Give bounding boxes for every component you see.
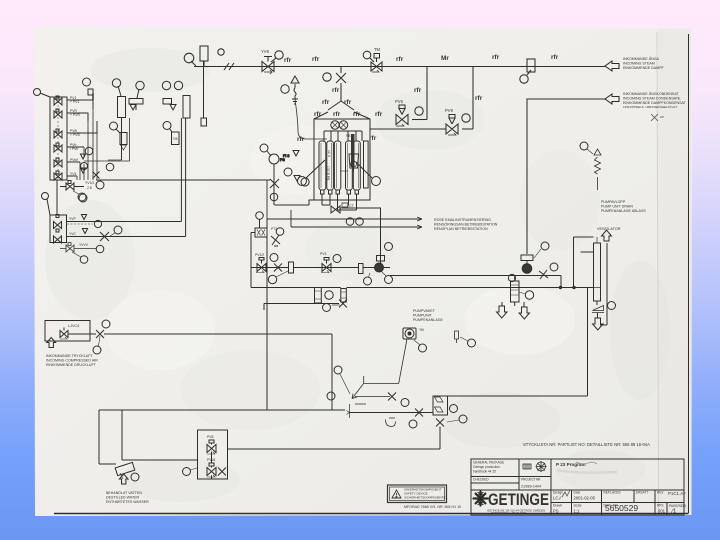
text ventilator arrow <box>602 230 612 241</box>
node j473 <box>472 67 474 130</box>
arrow drain A <box>497 306 507 318</box>
transducer B2 <box>163 122 171 130</box>
svg-text:GENERAL PACKAGE: GENERAL PACKAGE <box>473 461 504 465</box>
svg-text:rfr: rfr <box>414 87 422 94</box>
svg-text:SICHERHEITSKOMPONENTE: SICHERHEITSKOMPONENTE <box>404 496 446 500</box>
wire main to column <box>594 287 601 289</box>
title block frame <box>471 459 684 515</box>
wire condensate y99 <box>527 99 605 254</box>
svg-text:2001-02-05: 2001-02-05 <box>574 496 596 501</box>
wire down from CW <box>390 276 561 288</box>
svg-text:rfr: rfr <box>475 95 483 102</box>
valve TM <box>371 54 382 72</box>
text pump drain <box>597 200 646 231</box>
wire instr line 1 <box>267 180 422 221</box>
wire long bottom manifold <box>56 180 58 215</box>
label YV6/PV6/PV9 <box>261 47 454 113</box>
column V1 <box>594 243 601 301</box>
svg-text:PV8: PV8 <box>207 435 214 439</box>
dip tube <box>351 134 355 167</box>
cylinder 5 <box>353 141 360 190</box>
svg-text:PCT: PCT <box>347 204 354 208</box>
paper scan shading right <box>658 29 691 514</box>
water station <box>115 462 135 475</box>
svg-text:PUMPAVLOPP: PUMPAVLOPP <box>601 200 626 204</box>
wire loop bottom <box>448 395 588 397</box>
arrow water in <box>119 474 128 484</box>
svg-text:DESTILLED WATER: DESTILLED WATER <box>106 496 140 500</box>
valve X under P2 <box>339 300 347 308</box>
svg-text:MFGRAD 7668 V/S. NR. 565 H1 10: MFGRAD 7668 V/S. NR. 565 H1 10 <box>404 505 461 509</box>
title block icons <box>523 461 547 472</box>
text incoming steam <box>623 56 665 70</box>
valve PV5 <box>54 158 62 167</box>
air station box <box>45 321 90 342</box>
vent pipe <box>600 243 607 325</box>
wire bottom collect <box>322 198 357 210</box>
bottom nozzles <box>321 190 359 194</box>
heat exchanger HX <box>511 281 520 302</box>
node NB <box>218 49 224 55</box>
node T-junction <box>364 277 372 285</box>
valve X P5 <box>218 468 226 476</box>
valve YV1/2 lower <box>60 181 84 191</box>
instrument PI1 <box>184 53 194 63</box>
svg-text:PROJECTNR: PROJECTNR <box>521 478 541 482</box>
wire steps <box>67 100 97 176</box>
wire vertical x267 <box>266 219 268 410</box>
wire column drop <box>588 288 598 397</box>
svg-text:Scale: Scale <box>574 504 582 508</box>
valve YV6 <box>262 57 274 72</box>
svg-text:2.8: 2.8 <box>87 186 92 190</box>
chamber outline <box>314 119 370 200</box>
svg-text:Mr: Mr <box>441 55 449 62</box>
svg-text:LC ⁄⁄: LC ⁄⁄ <box>553 496 562 501</box>
svg-text:LJVC4: LJVC4 <box>68 324 79 328</box>
label cylinder text <box>326 134 351 181</box>
svg-text:PUMP UNIT DRAIN: PUMP UNIT DRAIN <box>601 205 633 209</box>
svg-text:rfr: rfr <box>551 54 559 61</box>
node j427 <box>426 67 428 120</box>
text water inlet <box>106 491 149 504</box>
rotameter R1 <box>289 262 294 273</box>
line break symbol <box>224 63 234 70</box>
valve diag D2 <box>539 270 548 279</box>
svg-text:PUMPENANLAGE ABLASS: PUMPENANLAGE ABLASS <box>601 209 646 213</box>
svg-text:YV4: YV4 <box>70 172 77 176</box>
svg-text:PV3: PV3 <box>320 252 327 256</box>
cylinder CY1 <box>118 97 126 118</box>
svg-text:PB: PB <box>346 134 351 138</box>
wire CW main <box>251 233 390 288</box>
svg-text:PT2: PT2 <box>271 227 277 231</box>
wire to right drop <box>340 208 381 263</box>
svg-text:+ PVR: + PVR <box>70 113 80 117</box>
svg-text:YVP: YVP <box>69 217 77 221</box>
svg-text:P1C1.AF: P1C1.AF <box>668 491 686 496</box>
junction x341 <box>340 67 342 74</box>
svg-text:130 B PB: 130 B PB <box>326 166 330 181</box>
svg-text:INCOMING STEAM: INCOMING STEAM <box>623 62 655 66</box>
transducer B1 <box>110 122 118 130</box>
svg-text:REV: REV <box>657 491 664 495</box>
text air inlet <box>46 354 98 367</box>
pressure switch box <box>377 256 385 262</box>
svg-text:Design: Design <box>553 491 563 495</box>
valve YVVV <box>60 243 96 253</box>
positioner A1 <box>129 99 143 105</box>
svg-text:ENTHÄRTETES WASSER: ENTHÄRTETES WASSER <box>106 500 149 504</box>
svg-text:1:1: 1:1 <box>574 509 580 514</box>
svg-text:rfr: rfr <box>312 56 320 63</box>
valve cluster under chamber <box>331 206 340 213</box>
svg-text:21089-1404: 21089-1404 <box>521 485 541 489</box>
cylinder CY2 <box>183 96 190 119</box>
valve PV1/2 <box>257 258 266 272</box>
node top circle <box>83 78 91 86</box>
door panel <box>364 141 369 188</box>
text incoming condensate <box>623 91 687 109</box>
wire return main <box>122 409 345 411</box>
wire air <box>68 334 332 410</box>
valve diag D1 <box>271 235 280 246</box>
svg-text:PUMPUNIT: PUMPUNIT <box>413 314 433 318</box>
pump dark P0 <box>375 263 384 272</box>
pump dark P3 <box>522 264 532 274</box>
valve chamber drain <box>270 179 279 193</box>
wire vent top <box>596 237 598 243</box>
svg-text:PUMPENANLAGE: PUMPENANLAGE <box>413 318 444 322</box>
svg-text:INKOMMANDE TRYCKLUFT: INKOMMANDE TRYCKLUFT <box>46 354 94 358</box>
svg-text:SATERMETALL AB 22 2002: SATERMETALL AB 22 2002 <box>491 511 526 515</box>
svg-text:Date: Date <box>574 491 581 495</box>
cylinder 4 <box>346 141 353 190</box>
arrow incoming condensate <box>605 94 619 104</box>
svg-text:rfr: rfr <box>353 111 361 118</box>
svg-text:YVC: YVC <box>69 232 77 236</box>
pencil check LC <box>562 490 570 497</box>
filter drop line <box>201 61 207 126</box>
svg-text:PVb/!: PVb/! <box>70 158 78 162</box>
svg-text:PV9: PV9 <box>445 108 454 113</box>
svg-text:YV6: YV6 <box>261 49 270 54</box>
cylinder 3 <box>334 141 340 190</box>
flag F2 <box>455 331 459 343</box>
svg-text:rfr: rfr <box>322 99 330 106</box>
strainer unit <box>433 396 448 415</box>
valve X3 strainer <box>436 419 444 427</box>
label rfr chamber <box>297 99 383 143</box>
svg-text:5650529: 5650529 <box>605 503 638 513</box>
wire suction <box>251 287 314 289</box>
svg-text:+ PV1: + PV1 <box>70 100 79 104</box>
valve PV8 <box>207 440 216 453</box>
svg-text:CHECKED: CHECKED <box>473 478 489 482</box>
wire discharge main <box>322 287 595 289</box>
valve X row6 <box>93 172 100 179</box>
wire instr line 2 <box>291 210 422 229</box>
hook symbol <box>386 418 396 427</box>
leader PB left <box>298 177 307 186</box>
svg-text:GETINGE: GETINGE <box>488 491 549 509</box>
svg-text:handbook 44 25: handbook 44 25 <box>473 470 496 474</box>
gauge pair XA <box>331 121 339 129</box>
svg-text:ERSATT: ERSATT <box>636 491 648 495</box>
arrow air in <box>47 338 56 348</box>
steam trap T1 <box>527 59 535 72</box>
getinge logo <box>474 491 550 513</box>
valve X pump out <box>388 393 396 401</box>
arrow drain B <box>519 307 529 319</box>
svg-text:TM: TM <box>374 47 381 52</box>
svg-text:rfr: rfr <box>297 136 305 143</box>
manifold box M2 <box>50 215 67 243</box>
scan texture blotches <box>45 48 670 502</box>
chamber bottom piping <box>260 76 381 263</box>
level mark <box>340 170 348 172</box>
valve PVR <box>54 109 62 118</box>
svg-text:RPS: RPS <box>657 504 664 508</box>
svg-text:INCOMING STEAM CONDENSATE: INCOMING STEAM CONDENSATE <box>623 97 681 101</box>
svg-text:LINKOPPDELK. UMFFNEKSHELKTLILT: LINKOPPDELK. UMFFNEKSHELKTLILT <box>623 105 678 109</box>
valve YV4 <box>54 171 62 180</box>
wire pump bottom <box>264 304 339 311</box>
top header <box>324 131 362 141</box>
svg-text:STYCKLISTA NR: PARTLIST NO:: STYCKLISTA NR: PARTLIST NO: DETAILLISTE … <box>523 442 650 447</box>
positioner A2 <box>163 99 172 105</box>
svg-text:+ PVB: + PVB <box>70 133 80 137</box>
svg-text:rfr: rfr <box>333 111 341 118</box>
text title block small <box>473 461 687 514</box>
wire M2 row2 <box>67 236 186 238</box>
text boiler instrumentation <box>434 218 498 231</box>
valve PVB <box>54 129 62 138</box>
svg-text:VENTILATOR: VENTILATOR <box>597 227 621 231</box>
svg-text:YV1/2: YV1/2 <box>85 181 94 185</box>
svg-text:001: 001 <box>658 509 666 514</box>
alarm triangles <box>80 154 85 173</box>
svg-text:EINKOMMENDE DRUCKLUFT: EINKOMMENDE DRUCKLUFT <box>46 363 97 367</box>
wire pump leader <box>352 339 407 399</box>
svg-text:RENGÖRINGSAN BETRIEBSSTATION: RENGÖRINGSAN BETRIEBSSTATION <box>434 223 498 227</box>
valve PV18 <box>207 463 216 476</box>
svg-text:YVVV: YVVV <box>79 243 89 247</box>
box P5 <box>198 430 228 479</box>
svg-text:INCOMING COMPRESSED AIR: INCOMING COMPRESSED AIR <box>46 359 98 363</box>
node ref B <box>34 89 41 96</box>
valve PVb <box>54 143 62 152</box>
bucket strainer <box>349 154 359 171</box>
svg-text:rfr: rfr <box>284 57 292 64</box>
svg-text:REPLACES: REPLACES <box>604 491 621 495</box>
wire M2 row1 <box>67 221 182 223</box>
wire inside <box>211 452 213 480</box>
drawing right border <box>688 34 690 513</box>
solenoid box S1 <box>255 228 267 237</box>
svg-text:rfr: rfr <box>344 99 352 106</box>
instrument circles row5/6 <box>85 147 93 155</box>
text pump unit <box>413 309 444 322</box>
filter F1 <box>200 46 208 61</box>
chamber inlet dome <box>314 101 370 119</box>
level box <box>521 255 533 261</box>
leader PB right <box>372 177 381 186</box>
logo snowflake <box>474 492 488 506</box>
svg-text:7/8: 7/8 <box>173 137 178 141</box>
pump P2 <box>341 289 347 303</box>
valve X air <box>96 330 104 338</box>
svg-text:INKOMMANDE ÅNGA: INKOMMANDE ÅNGA <box>623 56 660 61</box>
pencil scribble title <box>576 462 597 464</box>
wire pump unit main <box>350 412 434 414</box>
svg-text:rfr: rfr <box>492 54 500 61</box>
svg-text:rfr: rfr <box>375 111 383 118</box>
check valve V2 <box>592 306 604 313</box>
valve YV3 <box>54 229 62 243</box>
svg-text:PS: PS <box>553 509 559 514</box>
svg-text:PV6: PV6 <box>395 99 404 104</box>
scan fold line <box>657 32 659 513</box>
arrow incoming steam <box>605 61 619 71</box>
svg-text:12 X: 12 X <box>327 150 331 158</box>
svg-text:RENGPLAN BETRIEBSSTATION: RENGPLAN BETRIEBSSTATION <box>434 227 488 231</box>
svg-text:PAGE/SIDA: PAGE/SIDA <box>669 504 687 508</box>
wire column loop <box>574 237 594 288</box>
svg-text:Drawn: Drawn <box>553 504 562 508</box>
wire steam main y66.5 <box>194 66 605 68</box>
svg-text:INKOMMANDE ÅNGKONDENSAT: INKOMMANDE ÅNGKONDENSAT <box>623 91 679 96</box>
svg-text:PUMPVAKET: PUMPVAKET <box>413 309 436 313</box>
svg-text:PI 3: PI 3 <box>283 154 289 158</box>
manifold box M1 <box>50 97 67 180</box>
svg-text:! PVb: ! PVb <box>70 147 78 151</box>
valve X mid <box>274 264 282 272</box>
svg-text:rfr: rfr <box>332 87 340 94</box>
cylinder 1 <box>319 141 326 190</box>
svg-text:BEHANDLAT VATTEN: BEHANDLAT VATTEN <box>106 491 142 495</box>
svg-text:rfr: rfr <box>314 111 322 118</box>
pump P4 <box>403 328 416 339</box>
svg-text:P 23 Program: P 23 Program <box>556 462 586 467</box>
labels PV <box>70 96 80 176</box>
arrow drain C <box>593 318 603 330</box>
svg-text:⁄1: ⁄1 <box>670 509 677 515</box>
valve PV1 <box>54 96 62 105</box>
svg-text:rfr: rfr <box>396 56 404 63</box>
valve X2 pump <box>415 409 423 417</box>
rotameter R2 <box>359 264 364 274</box>
svg-text:PS: PS <box>280 158 285 162</box>
label rfr marks top <box>284 54 559 102</box>
wire bus down <box>77 100 97 180</box>
relief vent spring <box>595 157 601 190</box>
svg-text:Getinge production: Getinge production <box>473 465 500 469</box>
vent squiggle <box>292 84 298 104</box>
pump P1 <box>315 288 322 304</box>
node ref C <box>42 193 49 200</box>
cylinder 2 <box>327 141 334 190</box>
svg-text:PV1/2: PV1/2 <box>255 253 264 257</box>
valve YV7 <box>54 215 62 229</box>
valve X row2 <box>100 232 109 241</box>
pencil mark X13 <box>651 114 664 121</box>
svg-text:YB: YB <box>419 328 424 332</box>
wire water branch <box>99 410 122 464</box>
svg-text:EINKOMMENDE DAMPF: EINKOMMENDE DAMPF <box>623 66 665 70</box>
wire drain header <box>275 200 315 205</box>
chamber drain instruments PS PI <box>260 144 268 152</box>
svg-text:rfr: rfr <box>369 135 377 142</box>
labels YV <box>69 217 89 247</box>
svg-text:RÖSE EMALINSTRUMENTIERING: RÖSE EMALINSTRUMENTIERING <box>434 218 491 222</box>
valve PV9 <box>462 128 473 130</box>
valve PV3 <box>322 258 331 272</box>
positioner loop <box>84 118 130 161</box>
valve PV6 <box>412 119 427 121</box>
valve air <box>60 328 68 338</box>
drawing bottom border <box>54 513 689 515</box>
valve X10 <box>336 73 346 83</box>
